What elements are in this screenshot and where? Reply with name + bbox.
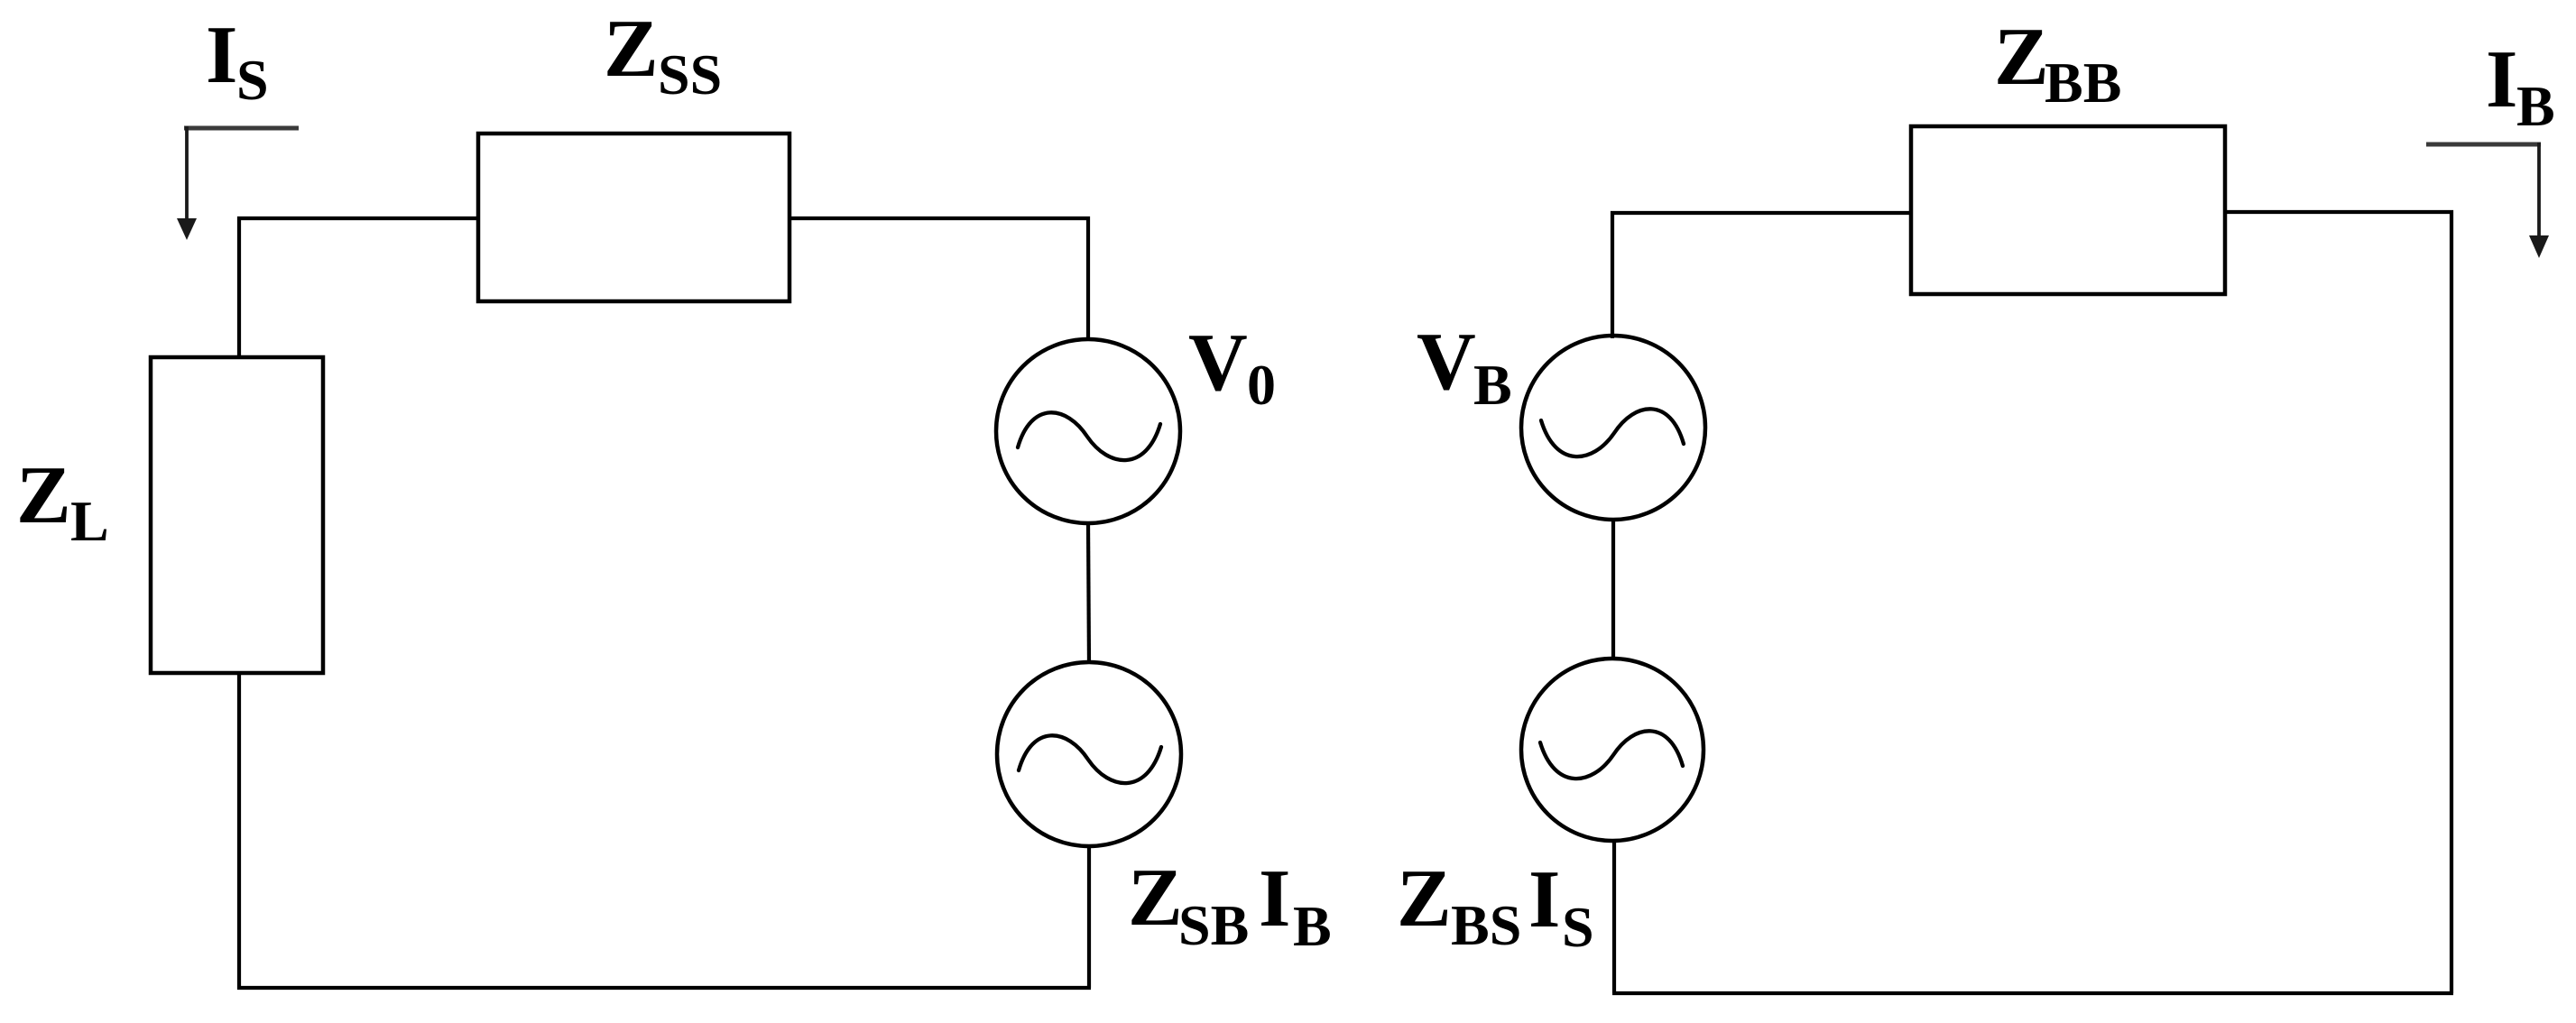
svg-text:L: L	[70, 489, 109, 553]
svg-text:V: V	[1188, 317, 1248, 408]
label I_B	[2486, 33, 2555, 138]
wire: V_B to dependent source Z_BS I_S	[1611, 520, 1615, 660]
wire: Z_SB source to bottom rail	[1087, 846, 1091, 988]
svg-text:Z: Z	[1128, 852, 1183, 943]
svg-text:BB: BB	[2045, 51, 2121, 115]
svg-text:I: I	[2486, 33, 2517, 124]
label Z_SS	[604, 3, 722, 106]
svg-text:I: I	[1528, 853, 1560, 945]
svg-text:SB: SB	[1178, 893, 1249, 957]
svg-text:I: I	[1259, 852, 1290, 944]
wire: node A corner to Z_SS left	[239, 218, 478, 359]
load impedance Z_L	[151, 357, 323, 673]
svg-text:SS: SS	[658, 42, 722, 106]
svg-text:B: B	[2516, 74, 2555, 138]
svg-text:S: S	[236, 48, 269, 112]
wire: V0 to dependent source Z_SB I_B	[1088, 523, 1089, 664]
svg-text:V: V	[1417, 316, 1476, 407]
wire: Z_L bottom to bottom rail	[237, 671, 241, 990]
svg-text:Z: Z	[1397, 852, 1452, 944]
svg-text:I: I	[206, 9, 237, 100]
svg-text:Z: Z	[604, 3, 659, 94]
label Z_BB	[1994, 11, 2121, 115]
impedance Z_BB	[1911, 126, 2225, 294]
label V_B	[1417, 316, 1512, 417]
wire: Z_BB right to right rail and down	[2225, 212, 2451, 993]
wire: V_B top corner to Z_BB left	[1612, 213, 1911, 338]
label V0	[1188, 317, 1276, 417]
current arrow I_B	[2426, 143, 2549, 258]
label I_S	[206, 9, 269, 112]
AC source V_B	[1521, 336, 1705, 520]
svg-text:B: B	[1293, 894, 1332, 958]
svg-text:0: 0	[1247, 353, 1276, 417]
dependent source Z_BS I_S	[1521, 659, 1703, 841]
wire: bottom rail of right loop	[1612, 991, 2453, 995]
label Z_SB I_B	[1128, 852, 1332, 958]
current arrow I_S	[177, 126, 299, 240]
svg-text:B: B	[1473, 353, 1512, 417]
impedance Z_SS	[478, 134, 789, 301]
svg-text:S: S	[1562, 895, 1594, 959]
svg-text:Z: Z	[1994, 11, 2049, 102]
wire: Z_SS right to source V0	[789, 218, 1088, 341]
label Z_L	[16, 449, 109, 553]
svg-text:BS: BS	[1451, 893, 1521, 957]
svg-text:Z: Z	[16, 449, 71, 540]
label Z_BS I_S	[1397, 852, 1594, 959]
AC source V0	[996, 339, 1180, 523]
wire: Z_BS source to bottom rail	[1612, 839, 1616, 993]
dependent source Z_SB I_B	[997, 662, 1181, 846]
wire: bottom rail of left loop	[237, 986, 1091, 990]
